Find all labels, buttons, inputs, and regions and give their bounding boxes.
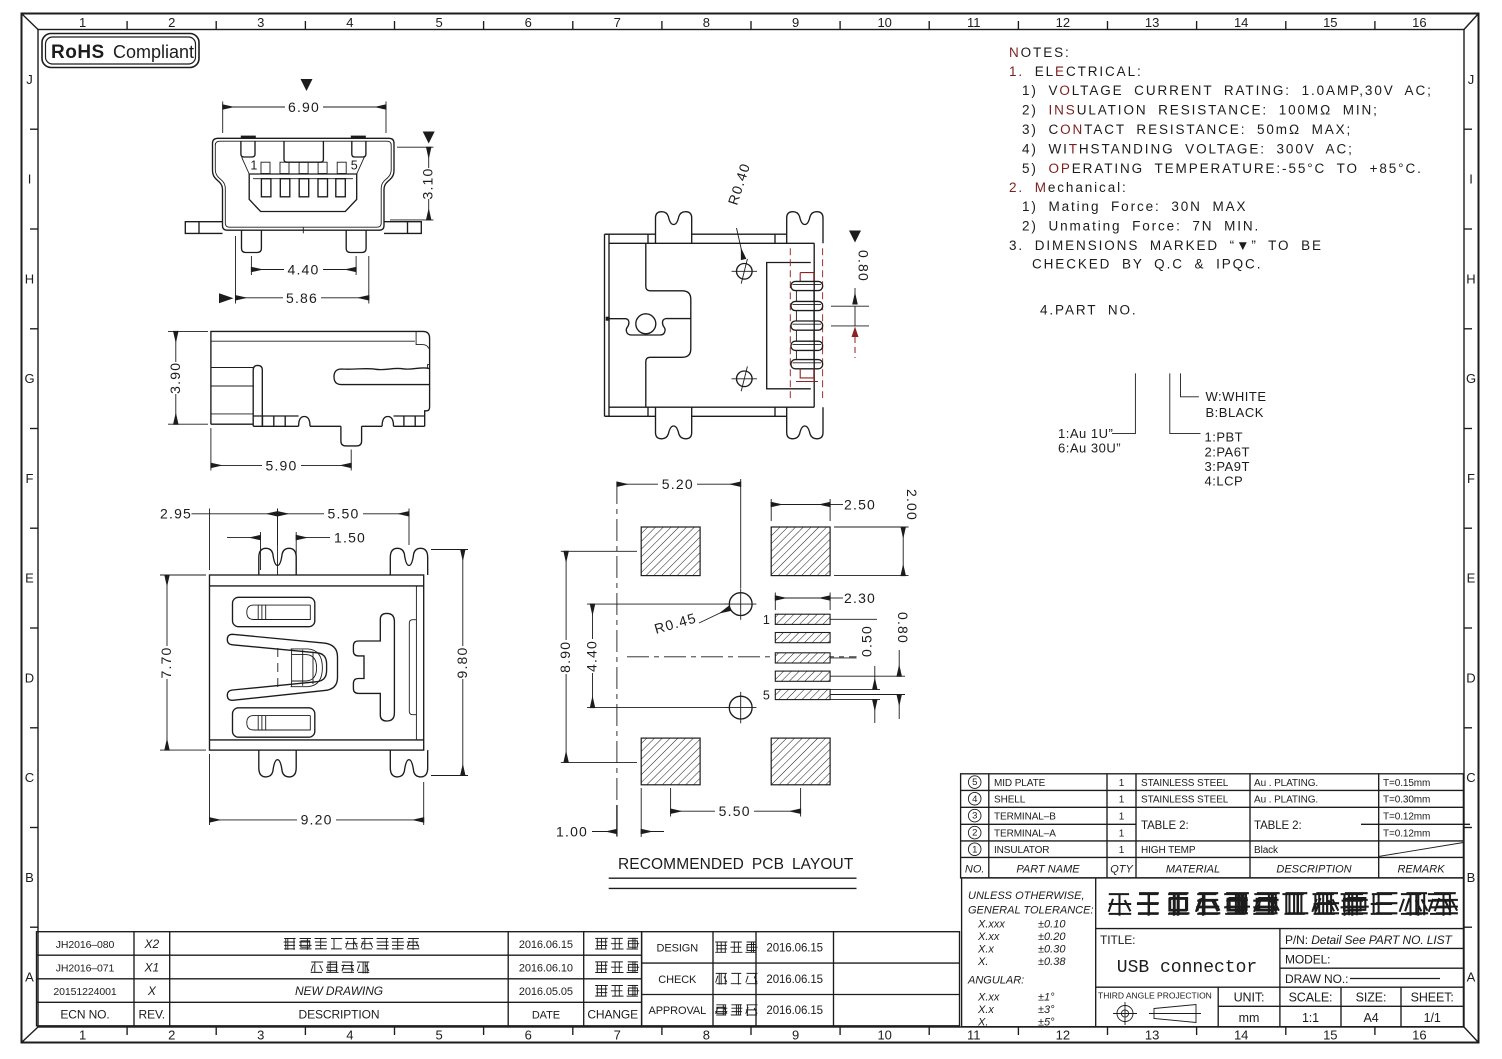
svg-text:11: 11 <box>967 15 981 30</box>
inspection triangle above <box>301 79 313 91</box>
svg-text:1: 1 <box>1119 778 1125 789</box>
svg-text:ECN NO.: ECN NO. <box>60 1007 109 1021</box>
svg-text:2016.06.15: 2016.06.15 <box>766 1005 823 1017</box>
rev change name <box>595 938 608 949</box>
svg-text:USB connector: USB connector <box>1117 958 1257 978</box>
dim 5.90 <box>210 428 212 471</box>
part number legend tree <box>1058 373 1267 488</box>
svg-text:TERMINAL–A: TERMINAL–A <box>994 829 1056 840</box>
svg-text:X2: X2 <box>144 937 160 951</box>
dim 8.90 <box>561 550 637 552</box>
svg-text:RECOMMENDED PCB LAYOUT: RECOMMENDED PCB LAYOUT <box>618 856 854 873</box>
notes block <box>1009 45 1433 318</box>
svg-text:2016.06.15: 2016.06.15 <box>766 942 823 954</box>
R0.40 leader <box>737 228 744 259</box>
svg-text:B:BLACK: B:BLACK <box>1206 405 1264 420</box>
svg-text:X.xxx: X.xxx <box>977 919 1005 931</box>
bottom teeth right group <box>394 416 425 426</box>
svg-text:±5°: ±5° <box>1038 1017 1055 1029</box>
pin 2 flange bar <box>791 301 823 310</box>
inner bottom line <box>210 739 424 741</box>
svg-text:1.00: 1.00 <box>556 823 588 839</box>
svg-text:0.50: 0.50 <box>859 625 875 657</box>
svg-text:GENERAL TOLERANCE:: GENERAL TOLERANCE: <box>968 905 1094 917</box>
svg-text:1/1: 1/1 <box>1424 1011 1441 1025</box>
svg-text:4) WITHSTANDING VOLTAGE: 300V: 4) WITHSTANDING VOLTAGE: 300V AC; <box>1022 142 1354 157</box>
svg-text:7: 7 <box>614 1028 621 1043</box>
pin row ext lines <box>830 618 877 620</box>
pin 1 top shank (red) <box>800 273 814 282</box>
dim 2.00 <box>834 526 909 528</box>
svg-text:X1: X1 <box>144 960 159 974</box>
svg-text:F: F <box>26 471 34 486</box>
svg-text:JH2016–071: JH2016–071 <box>56 962 115 974</box>
receptacle opening <box>249 174 357 212</box>
top-left lug <box>656 212 692 244</box>
cavity outline <box>767 263 811 389</box>
svg-text:3.90: 3.90 <box>167 362 183 394</box>
contact comb edge <box>253 365 262 426</box>
front view: mini-USB receptacle face <box>185 79 436 306</box>
svg-text:HIGH TEMP: HIGH TEMP <box>1141 845 1196 856</box>
svg-text:11: 11 <box>967 1028 981 1043</box>
svg-text:9: 9 <box>792 15 799 30</box>
svg-text:±1°: ±1° <box>1038 992 1055 1004</box>
svg-text:THIRD ANGLE PROJECTION: THIRD ANGLE PROJECTION <box>1098 991 1212 1001</box>
center solder leg <box>341 426 362 446</box>
svg-text:1: 1 <box>763 613 771 627</box>
svg-text:2016.06.15: 2016.06.15 <box>519 939 573 951</box>
bottom edge <box>605 407 815 416</box>
svg-text:W:WHITE: W:WHITE <box>1206 389 1267 404</box>
shell inner wall line <box>215 141 391 227</box>
lower slot <box>233 708 315 737</box>
snap hole circle <box>636 314 656 334</box>
svg-text:B: B <box>25 870 34 885</box>
svg-text:I: I <box>28 172 32 187</box>
svg-text:UNLESS OTHERWISE,: UNLESS OTHERWISE, <box>968 890 1085 902</box>
svg-text:CHANGE: CHANGE <box>587 1007 638 1021</box>
svg-text:3:PA9T: 3:PA9T <box>1205 459 1250 474</box>
body outline <box>210 575 424 750</box>
svg-text:3: 3 <box>257 1028 264 1043</box>
svg-text:1:Au 1U”: 1:Au 1U” <box>1058 426 1113 441</box>
svg-text:5.90: 5.90 <box>265 457 297 473</box>
svg-text:5.20: 5.20 <box>662 476 694 492</box>
svg-text:UNIT:: UNIT: <box>1234 991 1265 1005</box>
pin 5 flange bar <box>791 360 823 369</box>
svg-text:G: G <box>1466 371 1476 386</box>
top inner line and rim curl <box>211 332 430 369</box>
svg-text:REMARK: REMARK <box>1397 863 1445 875</box>
svg-text:±3°: ±3° <box>1038 1004 1055 1016</box>
recommended pcb layout view <box>556 476 920 888</box>
svg-text:0.80: 0.80 <box>856 250 872 282</box>
pin pad 1 <box>775 614 830 624</box>
pin 5 bottom shank (red) <box>796 369 818 382</box>
svg-text:T=0.12mm: T=0.12mm <box>1383 829 1430 840</box>
hole bottom <box>725 692 756 723</box>
svg-text:TABLE 2:: TABLE 2: <box>1141 820 1189 832</box>
middle spring band <box>227 634 337 700</box>
svg-text:2:PA6T: 2:PA6T <box>1205 445 1250 460</box>
svg-text:12: 12 <box>1056 1028 1070 1043</box>
upper slot inner contact <box>247 605 310 619</box>
svg-text:6: 6 <box>525 15 532 30</box>
svg-text:2016.05.05: 2016.05.05 <box>519 986 573 998</box>
svg-text:TITLE:: TITLE: <box>1100 933 1135 947</box>
svg-text:DRAW NO.:: DRAW NO.: <box>1285 972 1348 986</box>
pin 3 flange bar <box>791 321 823 330</box>
pin shank 3 <box>796 330 813 341</box>
svg-text:SHEET:: SHEET: <box>1411 991 1454 1005</box>
svg-text:H: H <box>1466 271 1475 286</box>
dim 4.40 <box>587 603 728 605</box>
svg-text:RoHS: RoHS <box>51 42 105 63</box>
rev change name <box>595 986 608 997</box>
rev description chinese row2 <box>311 961 323 972</box>
revision table <box>37 932 960 1026</box>
svg-text:16: 16 <box>1412 1028 1426 1043</box>
svg-text:I: I <box>1469 172 1473 187</box>
svg-text:3. DIMENSIONS MARKED “▼” TO BE: 3. DIMENSIONS MARKED “▼” TO BE <box>1009 238 1323 253</box>
svg-text:10: 10 <box>877 1028 891 1043</box>
svg-text:D: D <box>25 670 34 685</box>
upper slot <box>233 597 315 626</box>
svg-text:9.80: 9.80 <box>454 646 470 678</box>
dim 3.10 <box>397 146 434 148</box>
rev change name <box>595 962 608 973</box>
svg-text:4: 4 <box>346 15 353 30</box>
dim 5.20 <box>740 479 742 588</box>
svg-text:E: E <box>1467 571 1476 586</box>
svg-text:J: J <box>1468 72 1475 87</box>
dim 6.90 <box>222 102 224 134</box>
svg-text:4.40: 4.40 <box>583 640 599 672</box>
svg-text:14: 14 <box>1234 15 1248 30</box>
dim 2.30 <box>774 593 776 611</box>
top center tab <box>284 141 323 162</box>
svg-text:ANGULAR:: ANGULAR: <box>967 975 1024 987</box>
svg-text:A: A <box>1467 970 1476 985</box>
svg-text:X.: X. <box>977 956 988 968</box>
svg-text:7: 7 <box>614 15 621 30</box>
hole crosshair top <box>732 259 758 284</box>
bottom edge middle <box>310 417 404 427</box>
svg-text:2: 2 <box>168 15 175 30</box>
svg-text:14: 14 <box>1234 1028 1248 1043</box>
right retainer plate <box>353 613 394 721</box>
svg-text:2.50: 2.50 <box>844 496 876 512</box>
svg-text:±0.20: ±0.20 <box>1038 931 1066 943</box>
upper contact slots row <box>261 162 270 173</box>
dim 9.20 <box>209 754 211 825</box>
svg-text:6: 6 <box>525 1028 532 1043</box>
svg-text:X.x: X.x <box>977 944 994 956</box>
svg-text:X.xx: X.xx <box>977 992 1000 1004</box>
svg-text:CHECK: CHECK <box>658 974 697 986</box>
svg-text:7.70: 7.70 <box>158 646 174 678</box>
dim 0.80 lines <box>854 288 856 304</box>
svg-text:5.50: 5.50 <box>327 506 359 522</box>
bottom-left lug <box>656 407 692 439</box>
svg-text:4:LCP: 4:LCP <box>1205 474 1244 489</box>
datum triangle left <box>219 293 234 303</box>
svg-text:G: G <box>24 371 34 386</box>
hole top <box>725 588 756 619</box>
vertical centerline <box>616 482 618 800</box>
svg-text:C: C <box>25 770 34 785</box>
dim 5.86 <box>235 236 237 304</box>
svg-text:12: 12 <box>1056 15 1070 30</box>
svg-text:2: 2 <box>972 828 977 839</box>
svg-text:1: 1 <box>1119 845 1125 856</box>
svg-text:MODEL:: MODEL: <box>1285 953 1330 967</box>
pin shank 1 <box>796 291 813 302</box>
left solder leg <box>242 230 262 252</box>
left corner square <box>241 141 255 157</box>
svg-text:13: 13 <box>1145 1028 1159 1043</box>
svg-text:4.PART NO.: 4.PART NO. <box>1040 303 1138 318</box>
svg-text:STAINLESS STEEL: STAINLESS STEEL <box>1141 795 1229 806</box>
pad top-right <box>771 527 830 576</box>
svg-text:T=0.12mm: T=0.12mm <box>1383 812 1430 823</box>
svg-text:9: 9 <box>792 1028 799 1043</box>
top-right lug <box>787 212 823 244</box>
svg-text:3) CONTACT RESISTANCE: 50mΩ MA: 3) CONTACT RESISTANCE: 50mΩ MAX; <box>1022 122 1352 137</box>
right wing flange <box>384 222 421 234</box>
svg-text:STAINLESS STEEL: STAINLESS STEEL <box>1141 778 1229 789</box>
side view of connector <box>167 331 430 473</box>
dim 5.50b <box>670 788 672 817</box>
svg-text:Black: Black <box>1254 845 1279 856</box>
svg-text:INSULATOR: INSULATOR <box>994 845 1049 856</box>
svg-text:13: 13 <box>1145 15 1159 30</box>
svg-text:MID PLATE: MID PLATE <box>994 778 1046 789</box>
svg-text:2: 2 <box>168 1028 175 1043</box>
company name <box>1109 893 1132 916</box>
wavy slot <box>334 368 430 385</box>
svg-text:5: 5 <box>351 159 359 173</box>
svg-text:T=0.30mm: T=0.30mm <box>1383 795 1430 806</box>
svg-text:1: 1 <box>79 1028 86 1043</box>
title block <box>962 878 1464 1029</box>
svg-text:1:PBT: 1:PBT <box>1205 430 1244 445</box>
svg-text:X: X <box>147 984 157 998</box>
svg-text:8: 8 <box>703 1028 710 1043</box>
svg-text:4: 4 <box>972 794 977 805</box>
right solder leg <box>346 230 366 252</box>
pin shank 4 <box>796 350 813 359</box>
svg-text:H: H <box>25 271 34 286</box>
svg-text:5: 5 <box>972 777 977 788</box>
dim 7.70 <box>160 574 206 576</box>
pin 1 flange bar <box>791 281 823 290</box>
svg-text:1) VOLTAGE CURRENT RATING: 1.0: 1) VOLTAGE CURRENT RATING: 1.0AMP,30V AC… <box>1022 83 1433 98</box>
svg-text:5) OPERATING TEMPERATURE:-55°C: 5) OPERATING TEMPERATURE:-55°C TO +85°C. <box>1022 161 1423 176</box>
svg-text:15: 15 <box>1323 1028 1337 1043</box>
svg-text:NO.: NO. <box>965 863 985 875</box>
svg-text:SCALE:: SCALE: <box>1289 991 1333 1005</box>
right inner wall <box>415 586 417 740</box>
dim 1.50 <box>260 532 262 570</box>
R0.45 leader <box>699 609 730 624</box>
svg-text:±0.30: ±0.30 <box>1038 944 1066 956</box>
svg-text:16: 16 <box>1412 15 1426 30</box>
RoHS badge <box>42 34 199 68</box>
svg-text:D: D <box>1466 670 1475 685</box>
svg-text:PART NAME: PART NAME <box>1016 863 1080 875</box>
svg-text:10: 10 <box>877 15 891 30</box>
top-right mounting tab <box>390 548 427 575</box>
svg-text:X.x: X.x <box>977 1004 994 1016</box>
pad top-left <box>641 527 700 576</box>
svg-text:CHECKED BY Q.C & IPQC.: CHECKED BY Q.C & IPQC. <box>1032 257 1262 272</box>
svg-text:1) Mating Force: 30N MAX: 1) Mating Force: 30N MAX <box>1022 199 1247 214</box>
top-left mounting tab <box>259 548 296 575</box>
dim 2.95 5.50 chain <box>209 509 211 571</box>
svg-text:1:1: 1:1 <box>1302 1011 1319 1025</box>
svg-text:6:Au 30U”: 6:Au 30U” <box>1058 441 1121 456</box>
svg-text:Au . PLATING.: Au . PLATING. <box>1254 778 1318 789</box>
right edge <box>813 243 815 407</box>
svg-text:C: C <box>1466 770 1475 785</box>
dim 9.80 <box>431 549 468 551</box>
pin pad 3 <box>775 653 830 663</box>
svg-text:2016.06.10: 2016.06.10 <box>519 962 573 974</box>
svg-text:Au . PLATING.: Au . PLATING. <box>1254 795 1318 806</box>
svg-text:6.90: 6.90 <box>288 99 320 115</box>
svg-text:1.50: 1.50 <box>334 529 366 545</box>
inspection triangle 0.80 <box>849 231 861 243</box>
pin pad 5 <box>775 689 830 699</box>
pin pad 4 <box>775 671 830 681</box>
svg-text:B: B <box>1467 870 1476 885</box>
svg-text:2) INSULATION RESISTANCE: 100M: 2) INSULATION RESISTANCE: 100MΩ MIN; <box>1022 103 1379 118</box>
svg-text:2.95: 2.95 <box>160 506 192 522</box>
left double edge <box>605 234 610 416</box>
right thin slot <box>409 620 416 715</box>
top edge spring tabs <box>241 136 256 139</box>
svg-text:F: F <box>1467 471 1475 486</box>
svg-text:JH2016–080: JH2016–080 <box>56 939 115 951</box>
top edge <box>605 234 815 243</box>
top view of connector <box>605 161 872 439</box>
left block lines <box>211 368 253 414</box>
side body outline <box>211 331 430 424</box>
svg-text:T=0.15mm: T=0.15mm <box>1383 778 1430 789</box>
svg-text:2) Unmating Force: 7N MIN.: 2) Unmating Force: 7N MIN. <box>1022 219 1260 234</box>
svg-text:20151224001: 20151224001 <box>53 986 116 998</box>
svg-text:REV.: REV. <box>139 1007 166 1021</box>
svg-text:mm: mm <box>1239 1011 1260 1025</box>
svg-text:DESCRIPTION: DESCRIPTION <box>299 1007 380 1021</box>
svg-text:3: 3 <box>257 15 264 30</box>
bottom-left mounting tab <box>259 750 296 777</box>
svg-text:1: 1 <box>1119 812 1125 823</box>
svg-text:1: 1 <box>250 159 258 173</box>
horizontal centerline <box>627 656 857 658</box>
svg-text:5.86: 5.86 <box>286 290 318 306</box>
right corner square <box>352 141 366 157</box>
svg-text:15: 15 <box>1323 15 1337 30</box>
dim 1.00 <box>640 788 642 837</box>
svg-text:X.xx: X.xx <box>977 931 1000 943</box>
pin rails red dashed <box>790 248 822 398</box>
svg-text:3.10: 3.10 <box>420 167 436 199</box>
svg-text:SIZE:: SIZE: <box>1356 991 1387 1005</box>
svg-text:DESIGN: DESIGN <box>657 942 699 954</box>
hole crosshair bottom <box>732 366 758 391</box>
bottom-right mounting tab <box>390 750 427 777</box>
svg-text:5: 5 <box>763 689 771 703</box>
BOM parts table <box>961 774 1470 878</box>
svg-text:NOTES:: NOTES: <box>1009 45 1071 60</box>
svg-text:2.30: 2.30 <box>844 590 876 606</box>
svg-text:QTY: QTY <box>1110 863 1133 875</box>
lower slot inner contact <box>247 716 310 730</box>
left wing flange <box>185 222 222 234</box>
svg-text:Compliant: Compliant <box>113 42 194 62</box>
bottom center seam <box>302 227 304 233</box>
bottom edge with teeth left group <box>211 416 310 426</box>
svg-text:8.90: 8.90 <box>557 641 573 673</box>
pin 4 flange bar <box>791 341 823 350</box>
tongue top line <box>253 178 353 180</box>
svg-text:MATERIAL: MATERIAL <box>1166 863 1220 875</box>
pin shank 2 <box>796 311 813 321</box>
svg-text:DESCRIPTION: DESCRIPTION <box>1276 863 1351 875</box>
svg-text:0.80: 0.80 <box>895 612 911 644</box>
bottom-right lug <box>787 407 823 439</box>
tab centerline <box>277 509 279 576</box>
svg-text:E: E <box>25 571 34 586</box>
svg-text:TABLE 2:: TABLE 2: <box>1254 820 1302 832</box>
lower contact pins row <box>261 179 271 197</box>
svg-text:4: 4 <box>346 1028 353 1043</box>
pad bottom-right <box>771 738 830 785</box>
svg-text:5.50: 5.50 <box>719 803 751 819</box>
svg-text:1: 1 <box>972 844 977 855</box>
svg-text:3: 3 <box>972 811 977 822</box>
svg-text:1: 1 <box>1119 795 1125 806</box>
svg-text:APPROVAL: APPROVAL <box>648 1005 706 1017</box>
svg-text:NEW DRAWING: NEW DRAWING <box>295 984 383 998</box>
svg-text:2.00: 2.00 <box>904 489 920 521</box>
svg-text:±0.10: ±0.10 <box>1038 919 1066 931</box>
dim 4.40 <box>250 256 252 275</box>
svg-text:2016.06.15: 2016.06.15 <box>766 974 823 986</box>
svg-text:9.20: 9.20 <box>301 812 333 828</box>
middle contact U <box>291 649 323 687</box>
svg-text:X.: X. <box>977 1017 988 1029</box>
svg-text:J: J <box>26 72 33 87</box>
svg-text:4.40: 4.40 <box>287 262 319 278</box>
rev description chinese row1 <box>284 939 296 950</box>
svg-text:A: A <box>25 970 34 985</box>
shell outer outline <box>213 138 395 230</box>
svg-text:TERMINAL–B: TERMINAL–B <box>994 812 1056 823</box>
internal stepped plate <box>646 243 691 407</box>
dim 3.10 triangle <box>423 132 435 144</box>
svg-text:8: 8 <box>703 15 710 30</box>
inner top line <box>210 585 424 587</box>
dim 3.90 <box>168 330 208 332</box>
svg-text:1: 1 <box>1119 829 1125 840</box>
svg-text:1: 1 <box>79 15 86 30</box>
pad bottom-left <box>641 738 700 785</box>
svg-text:2. Mechanical:: 2. Mechanical: <box>1009 180 1128 195</box>
